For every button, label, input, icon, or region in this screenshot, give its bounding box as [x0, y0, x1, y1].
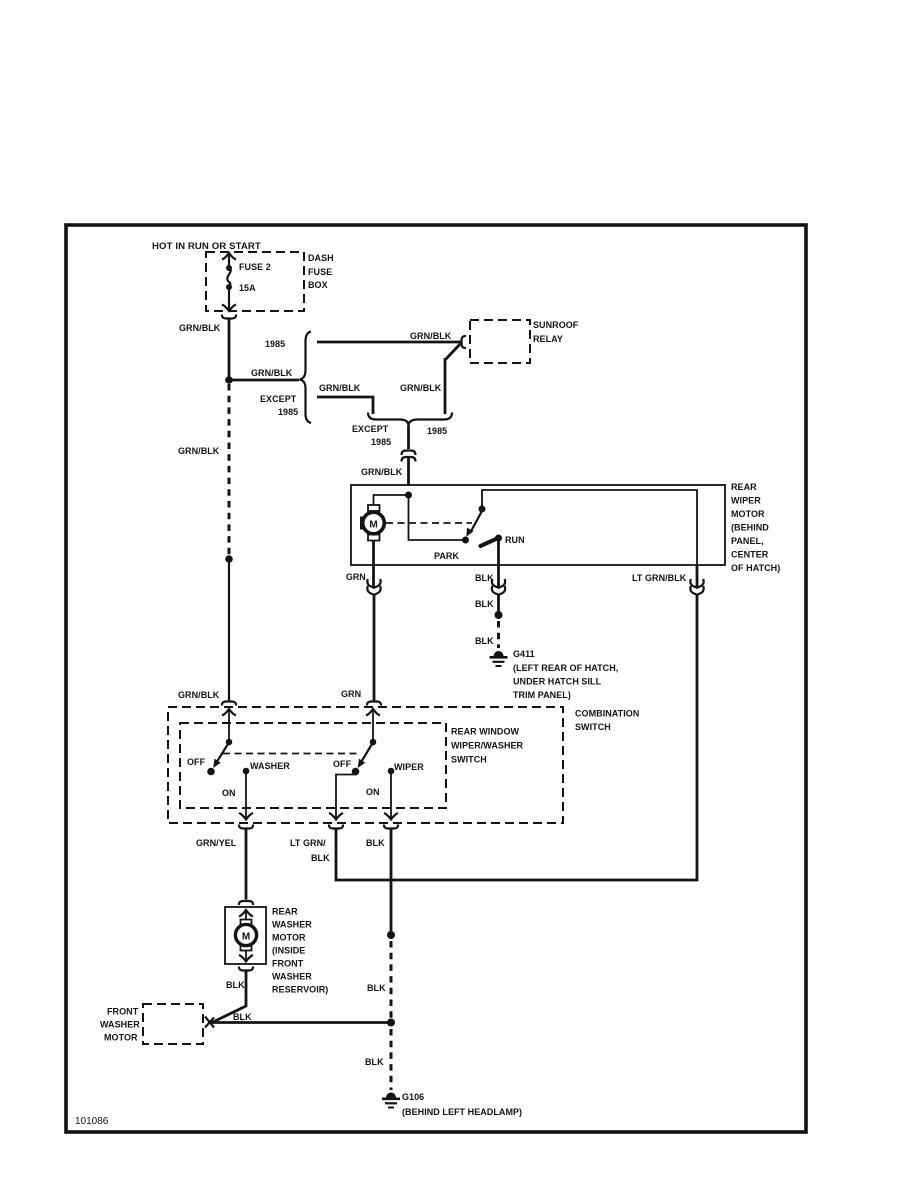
connector pair LT GRN/BLK: [690, 579, 703, 595]
svg-text:GRN/YEL: GRN/YEL: [196, 838, 237, 848]
connector cup below washer motor: [239, 967, 253, 971]
wire EXCEPT 1985 branch: [317, 397, 373, 414]
wiper switch arm with arrowhead: [358, 744, 372, 768]
connector cup at washer motor: [239, 901, 253, 905]
svg-text:ON: ON: [222, 788, 236, 798]
wire BLK below box: [497, 565, 500, 588]
svg-text:BLK: BLK: [365, 1057, 384, 1067]
wire BLK to splice: [497, 595, 500, 615]
wire to PARK contact: [409, 495, 464, 540]
svg-text:SUNROOF: SUNROOF: [533, 320, 579, 330]
svg-text:GRN/BLK: GRN/BLK: [410, 331, 452, 341]
wire wiper output with down arrow: [384, 771, 398, 820]
wire GRN/BLK to combination switch: [228, 559, 230, 702]
connector cup LT GRN below switch: [329, 825, 343, 829]
wire 1985 branch to sunroof relay: [317, 341, 462, 344]
svg-text:GRN/BLK: GRN/BLK: [251, 368, 293, 378]
node PARK contact: [462, 537, 469, 544]
connector pair BLK: [492, 579, 505, 595]
arrow up into washer motor: [239, 910, 253, 920]
splice X to front washer motor: [205, 1017, 214, 1028]
label EXCEPT 1985: [260, 394, 298, 417]
svg-text:MOTOR: MOTOR: [272, 933, 306, 943]
wire GRN/BLK from fuse to junction: [228, 319, 231, 381]
svg-text:UNDER HATCH SILL: UNDER HATCH SILL: [513, 677, 602, 687]
dashed mechanical link motor to park switch: [386, 522, 472, 524]
svg-text:15A: 15A: [239, 283, 256, 293]
svg-text:(BEHIND LEFT HEADLAMP): (BEHIND LEFT HEADLAMP): [402, 1107, 522, 1117]
washer switch contact dot: [226, 739, 233, 746]
RUN contact arm: [481, 535, 503, 547]
wire BLK from washer motor: [212, 971, 246, 1023]
svg-text:FUSE 2: FUSE 2: [239, 262, 271, 272]
dash fuse box (dashed): [206, 252, 304, 311]
svg-text:(INSIDE: (INSIDE: [272, 946, 305, 956]
sunroof relay box (dashed): [470, 320, 530, 363]
svg-text:EXCEPT: EXCEPT: [260, 394, 297, 404]
label G411 (LEFT REAR OF HATCH, UNDER HATCH SILL TRIM PANEL): [513, 649, 618, 700]
dashed link between switch halves: [223, 753, 360, 755]
svg-text:PANEL,: PANEL,: [731, 536, 764, 546]
wire BLK down from switch: [390, 829, 393, 936]
svg-text:LT GRN/BLK: LT GRN/BLK: [632, 573, 687, 583]
wire OFF to LT GRN/BLK output: [336, 772, 356, 820]
park switch arm with arrowhead: [466, 506, 485, 537]
junction dot at BLK cross: [387, 1019, 395, 1027]
svg-text:BLK: BLK: [226, 980, 245, 990]
wire branch to brace: [229, 379, 299, 382]
svg-text:WIPER/WASHER: WIPER/WASHER: [451, 741, 524, 751]
brace merge (points down): [368, 413, 452, 427]
svg-text:BLK: BLK: [475, 636, 494, 646]
connector cup below fuse box: [222, 315, 236, 319]
svg-text:BLK: BLK: [366, 838, 385, 848]
border frame: [66, 225, 806, 1132]
svg-text:TRIM PANEL): TRIM PANEL): [513, 690, 571, 700]
splice dot: [495, 611, 503, 619]
label G106 (BEHIND LEFT HEADLAMP): [402, 1092, 522, 1117]
rear washer motor box: [225, 907, 266, 964]
svg-text:BLK: BLK: [367, 983, 386, 993]
wire LT GRN/BLK box to connector: [696, 565, 699, 588]
svg-text:ON: ON: [366, 787, 380, 797]
svg-text:RESERVOIR): RESERVOIR): [272, 985, 328, 995]
svg-text:BLK: BLK: [233, 1012, 252, 1022]
motor M rear wiper: [360, 505, 384, 541]
svg-text:1985: 1985: [265, 339, 285, 349]
washer switch arm with arrowhead: [213, 744, 228, 768]
arrow up GRN/BLK entry: [222, 709, 236, 742]
svg-text:WIPER: WIPER: [731, 496, 761, 506]
wire diagonal from relay tap: [445, 342, 462, 360]
brace for model year split: [300, 332, 312, 424]
svg-text:BOX: BOX: [308, 280, 328, 290]
connector cup GRN/BLK at switch: [222, 702, 236, 706]
connector cup to sunroof relay: [462, 336, 467, 348]
label EXCEPT 1985: [352, 424, 391, 447]
label LT GRN/ BLK: [290, 838, 330, 863]
rear wiper motor box: [351, 485, 725, 565]
wire RUN to ground lead: [497, 538, 500, 565]
svg-text:GRN/BLK: GRN/BLK: [319, 383, 361, 393]
node OFF (washer): [207, 768, 215, 776]
wire below brace: [407, 426, 410, 449]
rear window wiper/washer switch inner box (dashed): [180, 723, 446, 808]
svg-text:GRN/BLK: GRN/BLK: [178, 446, 220, 456]
svg-text:(LEFT REAR OF HATCH,: (LEFT REAR OF HATCH,: [513, 663, 618, 673]
wire GRN/BLK dashed segment: [228, 384, 231, 556]
connector cup BLK below switch: [384, 825, 398, 829]
motor M rear washer: [235, 920, 256, 951]
combination switch outer box (dashed): [168, 707, 563, 823]
svg-text:HOT IN RUN OR START: HOT IN RUN OR START: [152, 241, 261, 252]
svg-text:WIPER: WIPER: [394, 762, 424, 772]
connector cup GRN/YEL below switch: [239, 825, 253, 829]
svg-text:GRN/BLK: GRN/BLK: [400, 383, 442, 393]
ground G106: [382, 1093, 400, 1108]
wire GRN/BLK into rear wiper motor: [407, 458, 410, 486]
fuse F2 15A: [226, 262, 271, 293]
svg-text:GRN: GRN: [346, 572, 366, 582]
wire GRN/BLK down to 1985 brace: [444, 358, 447, 414]
svg-text:(BEHIND: (BEHIND: [731, 523, 769, 533]
wiper switch contact dot: [370, 739, 377, 746]
svg-text:PARK: PARK: [434, 551, 459, 561]
svg-text:M: M: [242, 932, 250, 943]
svg-text:GRN/BLK: GRN/BLK: [178, 690, 220, 700]
svg-text:1985: 1985: [278, 407, 298, 417]
svg-text:RELAY: RELAY: [533, 334, 563, 344]
svg-text:GRN: GRN: [341, 689, 361, 699]
svg-text:REAR: REAR: [731, 482, 757, 492]
dashed BLK wire to ground: [497, 621, 500, 648]
wire BLK to ground junction: [209, 1021, 391, 1024]
svg-text:OF HATCH): OF HATCH): [731, 563, 780, 573]
svg-text:G106: G106: [402, 1092, 424, 1102]
svg-text:FRONT: FRONT: [107, 1007, 139, 1017]
svg-text:COMBINATION: COMBINATION: [575, 709, 639, 719]
svg-text:MOTOR: MOTOR: [731, 509, 765, 519]
arrow up GRN entry: [366, 709, 380, 742]
svg-text:MOTOR: MOTOR: [104, 1033, 138, 1043]
svg-text:FUSE: FUSE: [308, 267, 332, 277]
arrow down to fuse box bottom: [222, 287, 236, 311]
junction node in motor box: [374, 492, 413, 506]
svg-text:G411: G411: [513, 649, 535, 659]
dashed BLK wire: [390, 941, 393, 1018]
wire GRN motor output through box: [372, 541, 375, 588]
label COMBINATION SWITCH: [575, 709, 639, 733]
node WIPER contact: [388, 768, 395, 775]
wire LT GRN/BLK down to junction with cross wire: [335, 829, 338, 882]
wire GRN down to switch: [373, 595, 376, 702]
arrow down inside washer motor box: [239, 951, 253, 962]
junction dot: [225, 376, 233, 384]
label REAR WINDOW WIPER/WASHER SWITCH: [451, 727, 524, 765]
label FRONT WASHER MOTOR: [100, 1007, 140, 1043]
svg-text:OFF: OFF: [187, 757, 206, 767]
node OFF (wiper): [352, 768, 360, 776]
svg-text:SWITCH: SWITCH: [451, 755, 487, 765]
splice dot BLK: [387, 931, 395, 939]
svg-text:WASHER: WASHER: [250, 761, 290, 771]
wire washer output with down arrow: [239, 771, 253, 820]
splice dot: [225, 555, 233, 563]
arrow down LT GRN output: [329, 813, 343, 820]
label DASH FUSE BOX: [308, 253, 334, 290]
svg-text:REAR WINDOW: REAR WINDOW: [451, 727, 519, 737]
svg-text:WASHER: WASHER: [100, 1020, 140, 1030]
connector cup GRN at switch: [367, 702, 381, 706]
svg-text:LT GRN/: LT GRN/: [290, 838, 326, 848]
svg-text:CENTER: CENTER: [731, 550, 769, 560]
svg-text:1985: 1985: [371, 437, 391, 447]
svg-text:DASH: DASH: [308, 253, 334, 263]
svg-text:BLK: BLK: [311, 853, 330, 863]
svg-text:BLK: BLK: [475, 599, 494, 609]
svg-text:EXCEPT: EXCEPT: [352, 424, 389, 434]
front washer motor box (dashed): [143, 1004, 203, 1044]
svg-text:SWITCH: SWITCH: [575, 722, 611, 732]
svg-text:WASHER: WASHER: [272, 920, 312, 930]
dashed BLK wire to G106: [390, 1029, 393, 1090]
wire from park arm to run feed rail: [482, 490, 697, 565]
inline connector C1: [402, 451, 416, 462]
svg-text:WASHER: WASHER: [272, 972, 312, 982]
svg-text:GRN/BLK: GRN/BLK: [179, 323, 221, 333]
svg-text:GRN/BLK: GRN/BLK: [361, 467, 403, 477]
label SUNROOF RELAY: [533, 320, 579, 344]
wire LT GRN/BLK down and across to switch: [336, 595, 697, 880]
svg-text:FRONT: FRONT: [272, 959, 304, 969]
svg-text:M: M: [369, 520, 377, 531]
arrow up into hot feed: [222, 253, 236, 268]
node WASHER contact: [243, 768, 250, 775]
label REAR WIPER MOTOR (BEHIND PANEL, CENTER OF HATCH): [731, 482, 780, 573]
wire GRN/YEL down to washer motor: [245, 829, 248, 900]
svg-text:101086: 101086: [75, 1116, 109, 1127]
svg-text:REAR: REAR: [272, 907, 298, 917]
svg-text:OFF: OFF: [333, 759, 352, 769]
label REAR WASHER MOTOR (INSIDE FRONT WASHER RESERVOIR): [272, 907, 328, 995]
svg-text:RUN: RUN: [505, 535, 525, 545]
connector pair GRN: [367, 579, 380, 595]
svg-text:1985: 1985: [427, 426, 447, 436]
ground G411: [490, 651, 508, 666]
